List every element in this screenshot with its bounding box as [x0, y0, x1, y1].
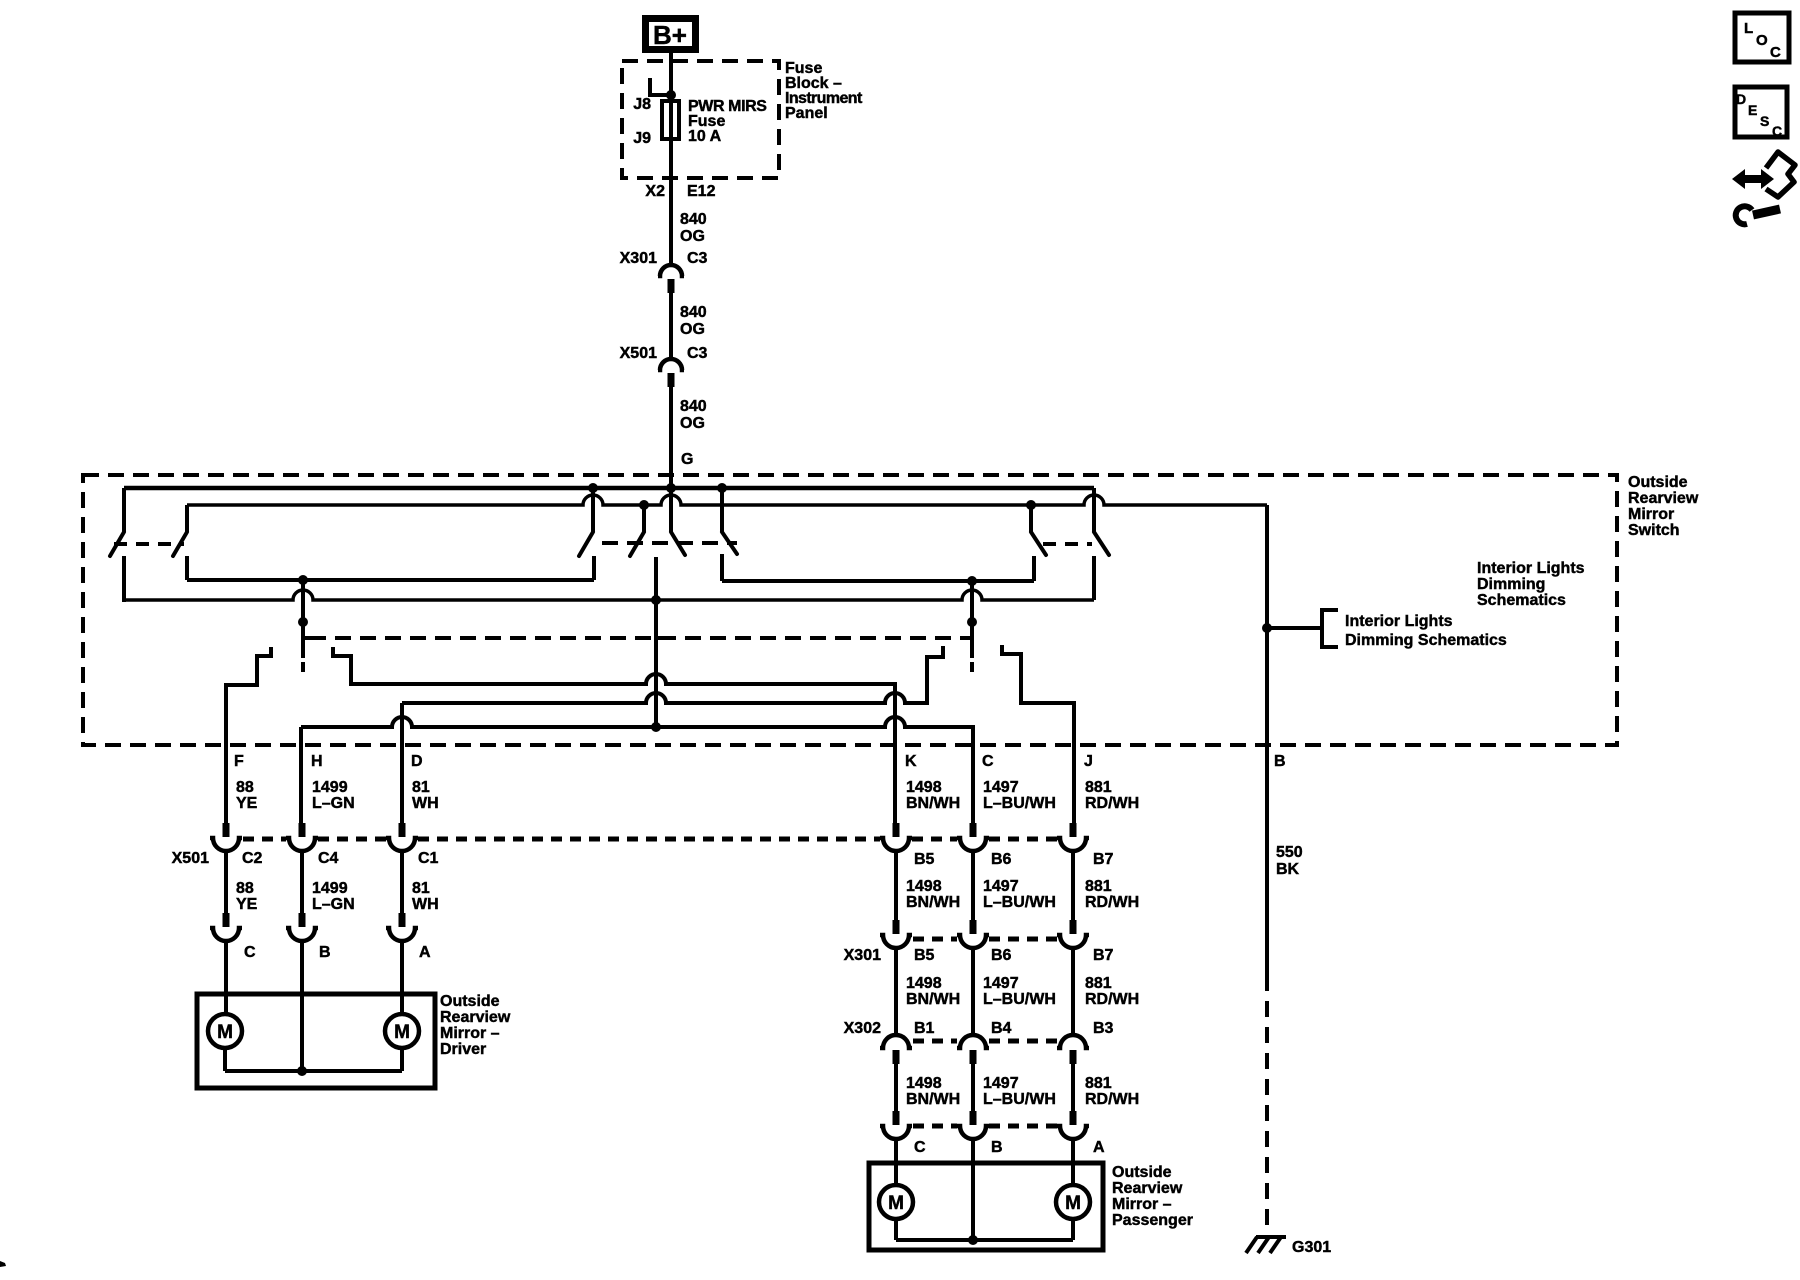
svg-text:A: A — [419, 944, 431, 961]
svg-text:C4: C4 — [318, 850, 339, 867]
wire C mid segment 2 — [971, 947, 975, 1036]
svg-text:BN/WH: BN/WH — [906, 894, 960, 911]
svg-text:C3: C3 — [687, 250, 708, 267]
connector X302-B4 — [957, 1035, 989, 1048]
node bus-right — [717, 483, 727, 493]
switch contact S1b fixed stub — [185, 505, 189, 532]
wire 840 OG segment 3 — [669, 387, 673, 489]
svg-text:C1: C1 — [418, 850, 439, 867]
wire into driver mirror B — [300, 940, 304, 1071]
connector passenger C/B/A dashed line — [913, 1124, 957, 1129]
node center pole on y600 — [651, 595, 661, 605]
passenger mirror internal common wire — [894, 1219, 898, 1240]
connector X501 row dashed line — [243, 837, 286, 842]
connector X302-B1 — [880, 1035, 912, 1048]
svg-text:1497: 1497 — [983, 878, 1019, 895]
svg-text:B: B — [991, 1139, 1003, 1156]
connector row1 right B5 — [893, 823, 900, 837]
svg-text:X2: X2 — [645, 183, 665, 200]
wire C mid segment 3 — [971, 1064, 975, 1111]
svg-text:B3: B3 — [1093, 1020, 1114, 1037]
svg-text:Panel: Panel — [785, 105, 828, 122]
right detent linkage vertical — [970, 581, 974, 658]
svg-text:Rearview: Rearview — [1628, 490, 1699, 507]
wire into passenger mirror B — [971, 1138, 975, 1240]
svg-text:D: D — [1736, 91, 1746, 107]
mechanical linkage right pair — [1043, 542, 1092, 546]
wire net to K with staircase — [333, 647, 895, 823]
svg-text:E: E — [1748, 102, 1757, 118]
connector X501-C2 — [223, 823, 230, 837]
svg-text:881: 881 — [1085, 1075, 1112, 1092]
switch contact S3a pole stub — [1032, 556, 1036, 581]
node driver common — [297, 1066, 307, 1076]
wire J mid segment 2 — [1071, 947, 1075, 1036]
svg-text:OG: OG — [680, 415, 705, 432]
svg-text:Driver: Driver — [440, 1041, 486, 1058]
outside rearview mirror driver box — [197, 994, 435, 1088]
svg-text:BN/WH: BN/WH — [906, 1091, 960, 1108]
connector X301-B6 — [970, 920, 977, 934]
connector X302 row dashed line — [913, 1039, 957, 1044]
svg-text:840: 840 — [680, 304, 707, 321]
mechanical linkage center — [602, 541, 737, 545]
svg-text:Outside: Outside — [440, 993, 500, 1010]
svg-text:X501: X501 — [620, 345, 657, 362]
wire J staircase — [1002, 645, 1074, 823]
svg-text:Interior Lights: Interior Lights — [1345, 613, 1453, 630]
svg-text:RD/WH: RD/WH — [1085, 991, 1139, 1008]
switch contact S3a fixed stub — [1029, 505, 1033, 532]
svg-text:C: C — [1770, 44, 1781, 61]
svg-text:F: F — [234, 753, 244, 770]
svg-text:L: L — [1744, 20, 1753, 37]
switch contact S1b pole stub — [185, 556, 189, 580]
switch contact S1a fixed stub — [122, 488, 126, 532]
outside rearview mirror passenger box — [869, 1163, 1103, 1250]
connector passenger B — [970, 1111, 977, 1125]
switch contact S2c fixed stub — [669, 488, 673, 532]
svg-text:Dimming Schematics: Dimming Schematics — [1345, 632, 1507, 649]
svg-text:G: G — [681, 451, 693, 468]
svg-text:B6: B6 — [991, 851, 1012, 868]
off-page bracket interior lights dimming — [1322, 610, 1338, 647]
motor M2 driver — [385, 1014, 419, 1048]
motor M1 driver — [208, 1014, 242, 1048]
svg-text:RD/WH: RD/WH — [1085, 1091, 1139, 1108]
svg-text:B1: B1 — [914, 1020, 935, 1037]
svg-text:1499: 1499 — [312, 779, 348, 796]
svg-text:B: B — [1274, 753, 1286, 770]
connector row1 right B6 — [970, 823, 977, 837]
connector X501-C1 — [399, 823, 406, 837]
node bus-left switch — [588, 483, 598, 493]
power node B+ — [646, 19, 696, 50]
svg-text:G301: G301 — [1292, 1239, 1331, 1256]
svg-text:B7: B7 — [1093, 851, 1114, 868]
svg-text:X501: X501 — [172, 850, 209, 867]
navigation icon arrows and wrench — [1740, 175, 1766, 183]
svg-text:M: M — [1065, 1193, 1081, 1214]
svg-text:81: 81 — [412, 779, 430, 796]
svg-text:Mirror: Mirror — [1628, 506, 1674, 523]
svg-text:X301: X301 — [620, 250, 657, 267]
connector row1 right B7 — [1070, 823, 1077, 837]
LOC reference box — [1735, 13, 1789, 62]
wire net H to C — [301, 717, 973, 823]
svg-text:H: H — [311, 753, 323, 770]
connector driver A — [399, 913, 406, 927]
svg-text:L–GN: L–GN — [312, 896, 355, 913]
wire B from second bus — [1265, 505, 1269, 975]
connector X302-B3 — [1057, 1035, 1089, 1048]
svg-text:B: B — [319, 944, 331, 961]
wire J mid segment — [1071, 850, 1075, 920]
svg-text:550: 550 — [1276, 844, 1303, 861]
svg-text:J: J — [1084, 753, 1093, 770]
svg-text:L–BU/WH: L–BU/WH — [983, 795, 1056, 812]
svg-text:BN/WH: BN/WH — [906, 795, 960, 812]
svg-text:Outside: Outside — [1112, 1164, 1172, 1181]
switch contact S2d blade — [722, 532, 737, 554]
svg-text:L–BU/WH: L–BU/WH — [983, 1091, 1056, 1108]
wire into driver mirror A — [400, 940, 404, 1014]
svg-text:YE: YE — [236, 795, 258, 812]
ground G301 — [1246, 1237, 1257, 1253]
svg-text:J8: J8 — [633, 96, 651, 113]
connector driver B — [299, 913, 306, 927]
switch contact S1a pole stub — [122, 556, 126, 602]
wire H drop — [299, 727, 303, 823]
svg-text:J9: J9 — [633, 130, 651, 147]
inner dashed linkage line — [310, 636, 965, 640]
svg-text:C: C — [244, 944, 256, 961]
svg-text:O: O — [1756, 32, 1768, 49]
svg-text:B5: B5 — [914, 947, 935, 964]
svg-text:C3: C3 — [687, 345, 708, 362]
svg-text:OG: OG — [680, 321, 705, 338]
wire D drop — [400, 703, 404, 823]
driver mirror internal common wire — [223, 1048, 227, 1071]
wire D mid segment — [400, 850, 404, 913]
svg-text:L–BU/WH: L–BU/WH — [983, 991, 1056, 1008]
switch contact S1b blade — [173, 532, 187, 556]
svg-text:BN/WH: BN/WH — [906, 991, 960, 1008]
svg-text:1498: 1498 — [906, 975, 942, 992]
node passenger common — [968, 1235, 978, 1245]
svg-text:B+: B+ — [653, 20, 687, 50]
svg-text:C: C — [914, 1139, 926, 1156]
wire into passenger mirror C — [894, 1138, 898, 1185]
node center pole on y727 — [651, 722, 661, 732]
svg-text:10 A: 10 A — [688, 128, 722, 145]
fuse block - instrument panel (dashed box) — [622, 61, 779, 178]
connector X301 row dashed line — [913, 937, 957, 942]
svg-text:1498: 1498 — [906, 878, 942, 895]
wire net to D staircase right — [402, 646, 943, 703]
wire K mid segment 2 — [894, 947, 898, 1036]
connector passenger C — [893, 1111, 900, 1125]
svg-text:1497: 1497 — [983, 779, 1019, 796]
node pole-right — [967, 576, 977, 586]
svg-text:BK: BK — [1276, 861, 1300, 878]
svg-text:M: M — [394, 1022, 410, 1043]
switch contact S2b blade — [630, 532, 644, 556]
svg-text:C: C — [1772, 123, 1782, 139]
svg-text:RD/WH: RD/WH — [1085, 894, 1139, 911]
svg-text:Dimming: Dimming — [1477, 576, 1545, 593]
svg-text:88: 88 — [236, 880, 254, 897]
switch contact S2b fixed stub — [642, 505, 646, 532]
pole wire left y580 — [187, 578, 594, 582]
switch contact S2a blade — [579, 532, 593, 556]
svg-text:1497: 1497 — [983, 975, 1019, 992]
long pole wire y600 with hops — [124, 590, 1094, 600]
svg-text:1498: 1498 — [906, 779, 942, 796]
wire into passenger mirror A — [1071, 1138, 1075, 1185]
fuse PWR MIRS 10A — [662, 101, 679, 139]
switch contact S3a blade — [1031, 532, 1046, 555]
outside rearview mirror switch dashed box — [83, 475, 1617, 745]
connector X501-C4 — [299, 823, 306, 837]
mechanical linkage left pair — [114, 542, 184, 546]
svg-text:88: 88 — [236, 779, 254, 796]
switch contact S2d pole stub — [720, 554, 724, 581]
switch contact S3b blade — [1094, 532, 1109, 555]
svg-text:L–GN: L–GN — [312, 795, 355, 812]
connector passenger A — [1070, 1111, 1077, 1125]
svg-text:Mirror –: Mirror – — [1112, 1196, 1172, 1213]
svg-text:840: 840 — [680, 211, 707, 228]
pole wire right y581 — [722, 579, 1034, 583]
svg-text:B4: B4 — [991, 1020, 1012, 1037]
wire J mid segment 3 — [1071, 1064, 1075, 1111]
connector X501 C3 inline — [658, 359, 684, 370]
svg-text:C: C — [982, 753, 994, 770]
svg-text:M: M — [888, 1193, 904, 1214]
node second-bus right — [1026, 500, 1036, 510]
connector X301-B7 — [1070, 920, 1077, 934]
wire 840 OG segment 2 — [669, 293, 673, 357]
svg-text:1498: 1498 — [906, 1075, 942, 1092]
svg-text:K: K — [905, 753, 917, 770]
wire into driver mirror C — [224, 940, 228, 1014]
svg-text:Passenger: Passenger — [1112, 1212, 1193, 1229]
connector X301-B5 — [893, 920, 900, 934]
node bus-G — [666, 483, 676, 493]
DESC reference box — [1735, 87, 1787, 137]
svg-text:YE: YE — [236, 896, 258, 913]
svg-text:B6: B6 — [991, 947, 1012, 964]
wire F staircase — [226, 647, 271, 823]
svg-text:B5: B5 — [914, 851, 935, 868]
svg-text:D: D — [411, 753, 423, 770]
svg-text:Switch: Switch — [1628, 522, 1680, 539]
node second-bus left — [639, 500, 649, 510]
svg-text:M: M — [217, 1022, 233, 1043]
wire B+ feed into fuse block — [669, 53, 673, 99]
svg-text:X302: X302 — [844, 1020, 881, 1037]
supply bus wire — [124, 486, 1094, 491]
motor M4 passenger — [1056, 1185, 1090, 1219]
svg-text:C2: C2 — [242, 850, 263, 867]
svg-text:WH: WH — [412, 896, 439, 913]
wire H mid segment — [300, 850, 304, 913]
svg-text:840: 840 — [680, 398, 707, 415]
svg-text:Rearview: Rearview — [1112, 1180, 1183, 1197]
switch contact S2d fixed stub — [720, 488, 724, 532]
svg-text:OG: OG — [680, 228, 705, 245]
svg-text:881: 881 — [1085, 878, 1112, 895]
center pole wire vertical — [654, 557, 658, 727]
svg-text:1499: 1499 — [312, 880, 348, 897]
switch contact S2a fixed stub — [591, 488, 595, 532]
switch contact S2c blade — [671, 532, 685, 555]
svg-text:RD/WH: RD/WH — [1085, 795, 1139, 812]
left detent linkage vertical — [301, 580, 305, 658]
svg-text:WH: WH — [412, 795, 439, 812]
svg-text:B7: B7 — [1093, 947, 1114, 964]
svg-text:881: 881 — [1085, 779, 1112, 796]
svg-text:A: A — [1093, 1139, 1105, 1156]
svg-text:Outside: Outside — [1628, 474, 1688, 491]
wire F mid segment — [224, 850, 228, 913]
connector driver C — [223, 913, 230, 927]
second bus wire with crossover hops — [187, 495, 1267, 505]
wire through fuse — [669, 95, 673, 178]
svg-text:Schematics: Schematics — [1477, 592, 1566, 609]
connector X301 C3 inline — [658, 265, 684, 276]
svg-text:1497: 1497 — [983, 1075, 1019, 1092]
wire C mid segment — [971, 850, 975, 920]
node J8 bus tap — [666, 90, 676, 100]
wire K mid segment — [894, 850, 898, 920]
svg-text:X301: X301 — [844, 947, 881, 964]
svg-text:L–BU/WH: L–BU/WH — [983, 894, 1056, 911]
switch contact S3b fixed stub — [1092, 488, 1096, 532]
svg-text:Rearview: Rearview — [440, 1009, 511, 1026]
scan speck artifact — [0, 1261, 6, 1267]
svg-text:Interior Lights: Interior Lights — [1477, 560, 1585, 577]
switch contact S2a pole stub — [592, 556, 596, 580]
wire K mid segment 3 — [894, 1064, 898, 1111]
svg-text:81: 81 — [412, 880, 430, 897]
svg-text:Mirror –: Mirror – — [440, 1025, 500, 1042]
svg-text:S: S — [1760, 113, 1769, 129]
switch contact S3b pole stub — [1092, 556, 1096, 600]
node pole-left — [298, 575, 308, 585]
wire B dashed continuation — [1265, 975, 1269, 1233]
svg-text:881: 881 — [1085, 975, 1112, 992]
motor M3 passenger — [879, 1185, 913, 1219]
switch contact S1a blade — [110, 532, 124, 556]
node B dimming tap — [1262, 623, 1272, 633]
svg-text:E12: E12 — [687, 183, 716, 200]
wire 840 OG segment 1 — [669, 178, 673, 263]
